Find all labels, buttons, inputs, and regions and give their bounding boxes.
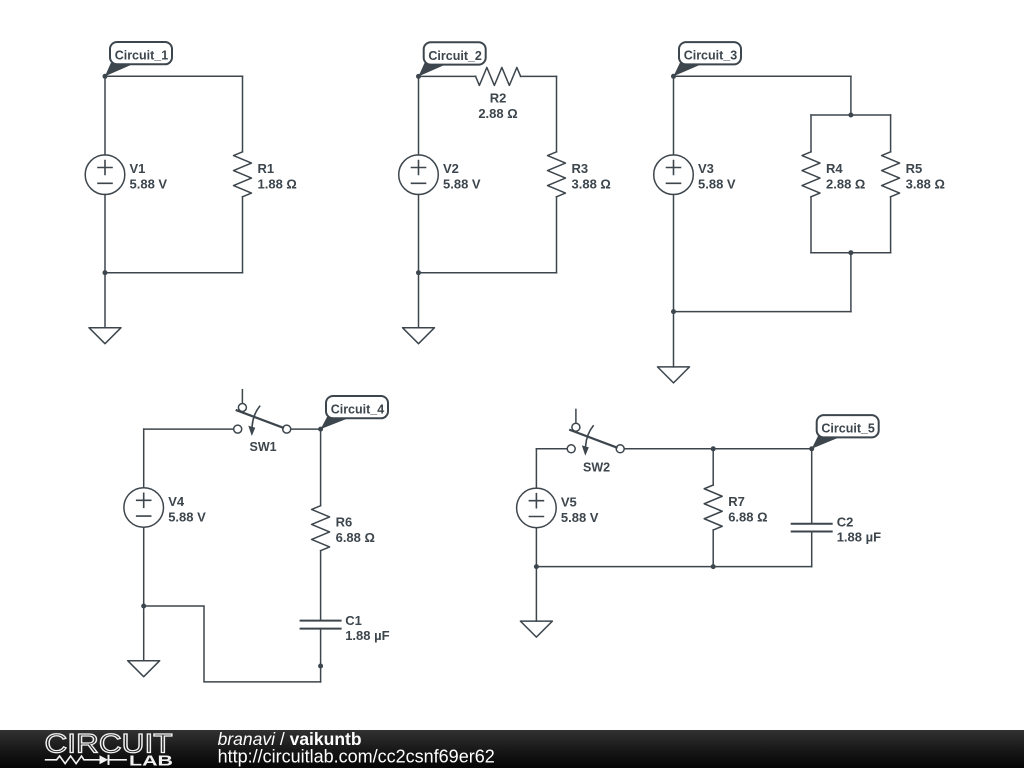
wire top rail c3: [674, 75, 851, 77]
resistor R4: [802, 152, 820, 197]
wire top-left lead c2: [419, 75, 476, 77]
wire left rail upper c4: [143, 429, 145, 488]
flag Circuit_5 pointer: [812, 436, 843, 449]
wire right rail upper c4: [320, 429, 322, 506]
svg-text:R1: R1: [258, 161, 275, 176]
wire switch to node c4: [291, 428, 321, 430]
wire R6 to C1 c4: [320, 551, 322, 621]
voltage source V4: [124, 488, 164, 528]
node c4 top-right: [318, 427, 323, 432]
resistor R2: [476, 67, 521, 85]
ground c2: [403, 328, 435, 344]
svg-text:V4: V4: [168, 494, 185, 509]
capacitor C2: [792, 524, 832, 532]
wire ground stem c1: [104, 273, 106, 328]
flag Circuit_3 pointer: [674, 63, 705, 76]
wire right branch lower c3: [890, 197, 892, 253]
flag Circuit_1 box: [110, 42, 172, 64]
wire right rail lower c1: [242, 197, 244, 273]
wire bottom return c4: [144, 606, 321, 682]
svg-text:V1: V1: [130, 161, 146, 176]
node c5 top-right: [809, 446, 814, 451]
ground c3: [658, 367, 690, 383]
wire bottom rail c1: [105, 272, 243, 274]
wire C2 lower lead c5: [811, 532, 813, 567]
svg-text:1.88 Ω: 1.88 Ω: [258, 177, 297, 192]
resistor R7: [704, 485, 722, 530]
wire C2 upper lead c5: [811, 449, 813, 524]
wire left branch upper c3: [810, 115, 812, 152]
wire bottom rail c5: [536, 566, 811, 568]
svg-text:SW2: SW2: [583, 460, 610, 474]
switch SW1: [234, 390, 291, 436]
voltage source V3: [654, 155, 694, 195]
node c2 top-left: [416, 74, 421, 79]
wire left rail lower c4: [143, 527, 145, 606]
ground c1: [89, 328, 121, 344]
node c5 R7 top: [711, 446, 716, 451]
resistor R3: [548, 152, 566, 197]
svg-text:Circuit_1: Circuit_1: [115, 49, 169, 63]
wire ground stem c5: [535, 567, 537, 622]
svg-text:R5: R5: [906, 161, 923, 176]
svg-text:V3: V3: [698, 161, 714, 176]
svg-text:5.88 V: 5.88 V: [561, 510, 599, 525]
wire left rail upper c5: [535, 449, 537, 488]
node c4 below C1: [318, 664, 323, 669]
switch SW2: [567, 409, 624, 455]
voltage source V1: [85, 155, 125, 195]
wire parallel top bar c3: [811, 114, 891, 116]
flag Circuit_3 box: [679, 42, 741, 64]
svg-text:1.88 µF: 1.88 µF: [837, 530, 881, 545]
wire right rail lower c2: [556, 197, 558, 273]
flag Circuit_4 box: [326, 396, 388, 418]
svg-text:V2: V2: [443, 161, 459, 176]
wire left rail lower c1: [104, 195, 106, 273]
wire left branch lower c3: [810, 197, 812, 253]
wire R7 branch upper c5: [712, 449, 714, 485]
svg-text:5.88 V: 5.88 V: [443, 177, 481, 192]
svg-text:3.88 Ω: 3.88 Ω: [906, 177, 945, 192]
svg-text:http://circuitlab.com/cc2csnf6: http://circuitlab.com/cc2csnf69er62: [218, 747, 495, 767]
svg-text:C2: C2: [837, 515, 854, 530]
wire left rail upper c1: [104, 76, 106, 155]
node c3 top junction: [848, 113, 853, 118]
svg-text:C1: C1: [345, 613, 362, 628]
svg-text:Circuit_4: Circuit_4: [331, 403, 385, 417]
node c5 bottom-left: [534, 564, 539, 569]
svg-text:R6: R6: [336, 515, 353, 530]
wire bottom rail c3: [674, 311, 851, 313]
svg-text:1.88 µF: 1.88 µF: [345, 628, 389, 643]
svg-text:2.88 Ω: 2.88 Ω: [826, 177, 865, 192]
wire parallel bottom bar c3: [811, 252, 891, 254]
svg-text:6.88 Ω: 6.88 Ω: [728, 510, 767, 525]
flag Circuit_2 box: [424, 42, 486, 64]
logo diode triangle: [100, 755, 109, 764]
wire ground stem c3: [673, 312, 675, 367]
node c2 bottom-left: [416, 270, 421, 275]
wire left rail lower c3: [673, 195, 675, 312]
node c3 bottom-left: [671, 309, 676, 314]
flag Circuit_4 pointer: [321, 417, 352, 429]
wire right rail upper c2: [556, 76, 558, 151]
capacitor C1: [301, 621, 341, 629]
wire feeder down c3: [850, 76, 852, 115]
wire switch to R7 node c5: [624, 448, 811, 450]
svg-text:R4: R4: [826, 161, 843, 176]
node c4 left junction: [141, 604, 146, 609]
svg-text:3.88 Ω: 3.88 Ω: [572, 177, 611, 192]
wire bottom rail c2: [419, 272, 557, 274]
node c1 top-left: [103, 74, 108, 79]
wire top-left lead c5: [536, 448, 567, 450]
wire right branch upper c3: [890, 115, 892, 152]
svg-text:R7: R7: [728, 494, 745, 509]
wire right rail upper c1: [242, 76, 244, 152]
node c3 bottom junction: [848, 250, 853, 255]
svg-text:5.88 V: 5.88 V: [698, 177, 736, 192]
svg-text:V5: V5: [561, 494, 577, 509]
logo resistor squiggle and diode: [46, 756, 127, 764]
wire return stem c3: [850, 253, 852, 312]
svg-text:SW1: SW1: [250, 440, 277, 454]
flag Circuit_1 pointer: [105, 63, 135, 76]
svg-text:Circuit_2: Circuit_2: [428, 49, 482, 63]
svg-text:5.88 V: 5.88 V: [168, 510, 206, 525]
resistor R6: [312, 506, 330, 551]
svg-text:R2: R2: [490, 90, 507, 105]
svg-text:Circuit_3: Circuit_3: [684, 49, 738, 63]
voltage source V5: [517, 488, 557, 528]
node c1 bottom-left: [103, 270, 108, 275]
wire left rail upper c2: [418, 76, 420, 154]
wire top-right lead c2: [521, 75, 557, 77]
ground c4: [128, 661, 160, 677]
wire top rail c1: [105, 75, 243, 77]
wire top-left lead c4: [144, 428, 234, 430]
resistor R1: [234, 152, 252, 197]
wire left rail lower c5: [535, 528, 537, 567]
svg-text:Circuit_5: Circuit_5: [821, 422, 875, 436]
svg-text:6.88 Ω: 6.88 Ω: [336, 530, 375, 545]
flag Circuit_5 box: [817, 415, 879, 437]
svg-text:5.88 V: 5.88 V: [130, 177, 168, 192]
svg-text:R3: R3: [572, 161, 589, 176]
wire left rail upper c3: [673, 76, 675, 155]
wire ground stem c4: [143, 606, 145, 661]
svg-text:LAB: LAB: [129, 752, 173, 768]
node c5 R7 bottom: [711, 564, 716, 569]
voltage source V2: [399, 155, 439, 195]
wire ground stem c2: [418, 273, 420, 328]
svg-text:2.88 Ω: 2.88 Ω: [478, 106, 517, 121]
node c3 top-left: [671, 74, 676, 79]
wire left rail lower c2: [418, 195, 420, 273]
ground c5: [520, 621, 552, 637]
resistor R5: [882, 152, 900, 197]
flag Circuit_2 pointer: [419, 63, 450, 76]
wire C1 lower lead c4: [320, 629, 322, 682]
wire R7 branch lower c5: [712, 530, 714, 567]
